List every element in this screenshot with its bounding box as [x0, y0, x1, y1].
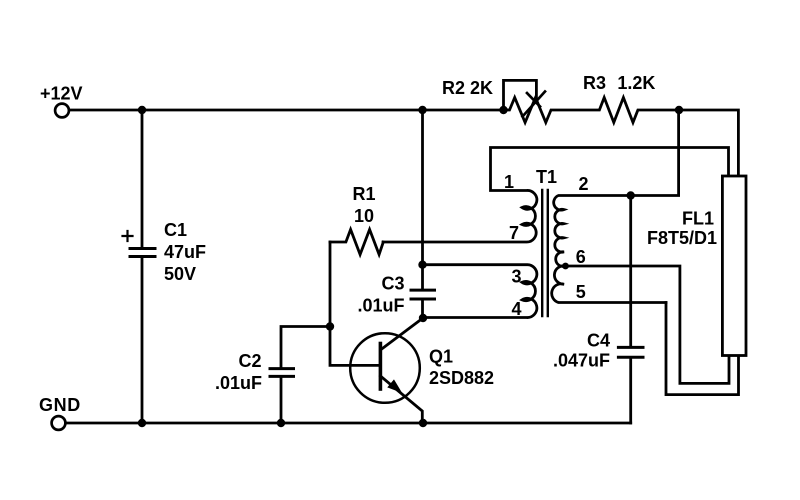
- svg-text:3: 3: [511, 267, 521, 287]
- svg-text:.047uF: .047uF: [553, 351, 610, 371]
- svg-text:2SD882: 2SD882: [429, 368, 494, 388]
- svg-text:10: 10: [354, 206, 374, 226]
- svg-text:.01uF: .01uF: [215, 373, 262, 393]
- svg-text:R3: R3: [583, 73, 606, 93]
- svg-text:C2: C2: [238, 351, 261, 371]
- svg-text:C3: C3: [381, 274, 404, 294]
- svg-text:R1: R1: [352, 184, 375, 204]
- svg-text:47uF: 47uF: [164, 242, 206, 262]
- svg-text:C4: C4: [587, 331, 610, 351]
- svg-text:+12V: +12V: [40, 84, 83, 104]
- svg-text:GND: GND: [39, 395, 81, 415]
- svg-text:C1: C1: [164, 220, 187, 240]
- svg-text:1.2K: 1.2K: [617, 73, 655, 93]
- svg-text:Q1: Q1: [429, 347, 453, 367]
- svg-text:1: 1: [504, 172, 514, 192]
- svg-text:.01uF: .01uF: [357, 296, 404, 316]
- svg-text:7: 7: [509, 223, 519, 243]
- svg-text:FL1: FL1: [682, 208, 714, 228]
- svg-text:F8T5/D1: F8T5/D1: [647, 228, 717, 248]
- svg-text:6: 6: [576, 247, 586, 267]
- svg-text:4: 4: [511, 299, 521, 319]
- svg-text:5: 5: [576, 282, 586, 302]
- svg-text:50V: 50V: [164, 264, 196, 284]
- svg-text:R2 2K: R2 2K: [442, 78, 493, 98]
- svg-text:T1: T1: [536, 167, 557, 187]
- svg-text:2: 2: [578, 174, 588, 194]
